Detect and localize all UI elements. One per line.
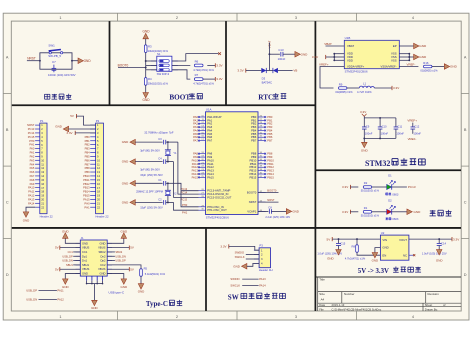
wire P1 pin22 to gnd [26, 207, 35, 212]
capacitor C12 [412, 123, 414, 127]
svg-text:VBAT: VBAT [324, 42, 332, 46]
svg-text:510Ω(510) ±1%: 510Ω(510) ±1% [361, 213, 380, 217]
svg-text:0Ω(0805) ±1%: 0Ω(0805) ±1% [420, 69, 438, 73]
wire diode center [266, 70, 273, 72]
svg-text:C10: C10 [382, 125, 387, 129]
svg-text:PB15: PB15 [83, 194, 90, 198]
svg-text:VSSA/VREF-: VSSA/VREF- [381, 65, 397, 69]
svg-text:PB3: PB3 [85, 147, 91, 151]
svg-text:100nF (104) 10% 50V: 100nF (104) 10% 50V [48, 73, 76, 77]
section divider horizontal row1 bottom [12, 104, 316, 106]
svg-text:3.3V: 3.3V [360, 110, 367, 114]
svg-text:U1B: U1B [345, 36, 351, 40]
svg-text:USB type-C: USB type-C [109, 290, 125, 294]
svg-text:EN: EN [382, 253, 386, 257]
wire R8 to EN [357, 252, 380, 255]
svg-text:Revision: Revision [428, 292, 440, 296]
wire LED out [392, 211, 407, 213]
power 5V typec right bottom [128, 267, 130, 271]
svg-text:SBU1: SBU1 [66, 263, 73, 267]
svg-text:PA14: PA14 [28, 201, 35, 205]
capacitor C14 [438, 239, 440, 243]
svg-text:PB0: PB0 [85, 135, 91, 139]
svg-text:VDDA-VREF+: VDDA-VREF+ [347, 65, 365, 69]
zone tick marks [117, 13, 119, 21]
section divider horizontal row2 bottom [12, 227, 461, 229]
wire J1 vbus row2 right [107, 247, 129, 249]
wire 5v rail [332, 238, 380, 240]
svg-text:NRST: NRST [267, 198, 275, 202]
svg-text:STM32F401CBU6: STM32F401CBU6 [206, 216, 229, 220]
capacitor C10 [379, 118, 381, 127]
svg-text:PB7: PB7 [85, 162, 91, 166]
wire S1 pin1 to NC [172, 54, 219, 61]
svg-text:Number: Number [344, 292, 354, 296]
svg-text:R1: R1 [364, 206, 368, 210]
svg-text:U2: U2 [381, 231, 385, 235]
svg-text:3.3V: 3.3V [453, 237, 460, 241]
svg-text:C3: C3 [158, 137, 162, 141]
wire J1 dp1 [73, 255, 80, 257]
svg-text:PB11: PB11 [83, 178, 90, 182]
ic U1A left pin stubs [199, 116, 206, 118]
svg-text:PB15: PB15 [267, 175, 274, 179]
wire J1 gnd top-right [107, 238, 124, 243]
resistor R8 [356, 245, 359, 253]
node reset loop left junction [39, 60, 41, 62]
wire cap out C1 [166, 182, 178, 184]
wire R to LED [372, 211, 387, 213]
svg-text:2.2uF (225) 10% 10V: 2.2uF (225) 10% 10V [265, 215, 290, 219]
ground GND r5 [138, 284, 144, 289]
svg-text:PA15: PA15 [192, 175, 199, 179]
svg-text:PA1: PA1 [30, 151, 35, 155]
ground GND ep [414, 43, 419, 49]
node boot junction upper [145, 60, 147, 62]
svg-text:4.7uH ±10%: 4.7uH ±10% [357, 90, 372, 94]
wire J1 dn2 [107, 255, 115, 257]
capacitor C1 [163, 181, 165, 186]
svg-text:NRST: NRST [249, 200, 257, 204]
svg-text:Size: Size [319, 292, 325, 296]
svg-text:PA12: PA12 [28, 194, 35, 198]
section title reset circuit [45, 94, 72, 100]
svg-text:PA8: PA8 [30, 178, 35, 182]
svg-text:C15: C15 [340, 241, 345, 245]
svg-text:USB_DN: USB_DN [115, 254, 126, 258]
svg-text:VCAP1: VCAP1 [247, 209, 257, 213]
wire J1 sbu2 [107, 251, 115, 253]
svg-text:PA13: PA13 [259, 277, 266, 281]
wire L1 to 3.3V [374, 87, 392, 89]
svg-text:SWCLK: SWCLK [230, 284, 240, 288]
wire EP to gnd [399, 45, 413, 47]
wire gnd to p3 pin4 [247, 263, 259, 266]
wire R9 to L1 [347, 87, 359, 89]
svg-text:CC1: CC1 [82, 250, 88, 254]
svg-text:3.3V: 3.3V [216, 64, 223, 68]
wire loop to GND [72, 60, 78, 62]
svg-text:PA13: PA13 [28, 197, 35, 201]
svg-text:R6: R6 [195, 59, 199, 63]
wire osc32 in [178, 142, 199, 194]
power 5V typec right top [128, 246, 130, 250]
ground GND typec bottom-right [121, 279, 127, 284]
svg-text:PA0: PA0 [30, 147, 35, 151]
wire gnd to cap C1 [135, 182, 162, 184]
power 3.3V vout [451, 237, 453, 241]
svg-text:15pF (150) 5% 50V: 15pF (150) 5% 50V [140, 173, 163, 177]
svg-text:SBU1: SBU1 [82, 263, 90, 267]
svg-text:PA7: PA7 [207, 139, 212, 143]
wire vdda path [320, 67, 344, 89]
wire vout rail [409, 238, 452, 240]
svg-text:SBU2: SBU2 [115, 250, 122, 254]
wire gnd to cap C2 [135, 201, 162, 203]
svg-text:GND: GND [55, 124, 62, 128]
wire gnd to p2 pin2 [69, 128, 96, 130]
ground GND reset [78, 58, 83, 64]
svg-text:3.3V: 3.3V [216, 77, 223, 81]
wire J1 dn1 [73, 260, 80, 262]
capacitor C4 [163, 159, 165, 164]
svg-text:GND: GND [122, 201, 129, 205]
svg-text:SW-PB_5: SW-PB_5 [48, 54, 61, 58]
svg-text:Dp2: Dp2 [101, 259, 106, 263]
svg-text:VBUS: VBUS [82, 267, 90, 271]
svg-text:PC15: PC15 [181, 198, 188, 202]
svg-text:C1: C1 [158, 178, 162, 182]
wire vss bus [408, 54, 410, 61]
svg-text:PB13: PB13 [83, 186, 90, 190]
svg-text:PA15: PA15 [207, 175, 214, 179]
svg-text:NC: NC [403, 253, 407, 257]
led color label [386, 218, 391, 220]
resistor R4 [144, 78, 147, 86]
svg-text:GND: GND [121, 230, 128, 234]
section divider vertical mid/right-column [314, 21, 316, 228]
svg-text:5V: 5V [130, 267, 134, 271]
svg-text:BOOT: BOOT [169, 94, 190, 102]
wire BOOT0 label [118, 67, 146, 69]
svg-text:SW1: SW1 [48, 43, 55, 47]
svg-text:File: File [319, 307, 324, 311]
svg-text:C11: C11 [397, 125, 402, 129]
svg-text:B: B [464, 128, 467, 132]
svg-text:PA5: PA5 [30, 166, 35, 170]
svg-text:GND: GND [292, 210, 299, 214]
svg-text:PB12: PB12 [267, 165, 274, 169]
svg-text:SWDIO: SWDIO [235, 251, 245, 255]
wire J1 vbus row7 left [60, 268, 81, 270]
capacitor C11 [395, 118, 397, 127]
wire J1 dp2 [107, 260, 115, 262]
svg-text:GND: GND [99, 241, 105, 245]
wire shield bus [87, 283, 103, 285]
svg-text:PC13: PC13 [181, 187, 188, 191]
svg-text:STM32F401CBU6: STM32F401CBU6 [345, 70, 368, 74]
wire J1 vbus row2 left [60, 247, 81, 249]
svg-text:Title: Title [319, 278, 325, 282]
svg-text:GND: GND [327, 256, 334, 260]
svg-text:S1: S1 [157, 52, 161, 56]
wire gnd to R3 [145, 39, 147, 45]
svg-text:PA6: PA6 [30, 170, 35, 174]
svg-text:GND: GND [99, 272, 105, 276]
svg-text:PB6: PB6 [85, 158, 91, 162]
wire BOOT0 right [258, 191, 279, 193]
svg-text:GND: GND [138, 290, 145, 294]
svg-text:EP: EP [393, 44, 397, 48]
wire R7 to 3.3V [203, 78, 215, 80]
svg-text:GND: GND [382, 246, 388, 250]
wire C13 to gnd [283, 53, 295, 55]
svg-text:PA9: PA9 [30, 182, 35, 186]
svg-text:SBU2: SBU2 [98, 250, 106, 254]
svg-text:PA4: PA4 [30, 162, 35, 166]
svg-text:R2: R2 [364, 181, 368, 185]
capacitor C9 [363, 118, 365, 127]
svg-text:D2: D2 [388, 198, 392, 202]
svg-text:0603: 0603 [392, 217, 399, 221]
power 5V typec left top [59, 246, 61, 250]
svg-text:R9: R9 [339, 82, 343, 86]
svg-text:VDD: VDD [347, 58, 353, 62]
svg-text:GND: GND [361, 149, 369, 153]
svg-text:BAT54C: BAT54C [262, 80, 272, 84]
svg-text:PB7: PB7 [251, 139, 257, 143]
svg-text:1: 1 [59, 16, 61, 20]
node 5v rail r8 [356, 238, 358, 240]
svg-text:PB9: PB9 [85, 170, 91, 174]
wire 3.3v to p2 pin3 [75, 132, 95, 134]
svg-text:PA2: PA2 [30, 154, 35, 158]
svg-text:NRST: NRST [27, 123, 35, 127]
svg-text:USB_DP: USB_DP [26, 289, 37, 293]
svg-text:VBUS: VBUS [98, 246, 106, 250]
wire R3 to R4 vertical [145, 53, 147, 78]
wire R16 to gnd [432, 66, 444, 68]
svg-text:PH1: PH1 [29, 143, 35, 147]
wire D3 to VB [278, 70, 293, 72]
svg-text:VREF-: VREF- [408, 137, 417, 141]
svg-text:3.3V: 3.3V [393, 86, 400, 90]
svg-text:PH1-OSC_OUT: PH1-OSC_OUT [207, 208, 227, 212]
svg-text:R3: R3 [148, 45, 152, 49]
wire 3.3v to p3 pin1 [229, 246, 259, 250]
svg-text:PB14: PB14 [83, 190, 90, 194]
svg-text:R7: R7 [195, 73, 199, 77]
no-connect NC u2 [409, 254, 413, 256]
svg-text:A: A [6, 56, 9, 60]
capacitor C8 [268, 209, 270, 214]
wire cap top rail [363, 116, 365, 118]
svg-text:C:\D-Mine\F401CB-MineF401CB.Sc: C:\D-Mine\F401CB-MineF401CB.SchDoc [332, 307, 382, 311]
svg-text:PA11: PA11 [28, 190, 35, 194]
wire swclk [246, 258, 259, 260]
wire vbat pin [326, 45, 345, 47]
svg-text:PB10: PB10 [83, 174, 90, 178]
svg-text:3.3V: 3.3V [342, 210, 349, 214]
svg-text:PB12: PB12 [83, 182, 90, 186]
power 3.3V R6 [214, 63, 216, 67]
wire J1 cc2 to R5 [107, 265, 141, 269]
svg-text:Dn2: Dn2 [101, 254, 106, 258]
svg-text:PA12: PA12 [57, 298, 64, 302]
wire R5 to gnd [140, 276, 142, 283]
wire NRST to loop [27, 60, 40, 62]
wire VCAP1 [258, 210, 268, 212]
ground GND c8 [286, 209, 291, 215]
svg-text:Type-C: Type-C [146, 300, 168, 308]
svg-text:C14: C14 [441, 241, 446, 245]
ground GND shield [92, 300, 98, 305]
svg-text:R16: R16 [423, 61, 429, 65]
ic U1A right pin stubs [258, 116, 266, 118]
svg-text:3.3V: 3.3V [237, 69, 244, 73]
svg-text:GND: GND [301, 52, 309, 56]
svg-text:GND: GND [233, 264, 240, 268]
wire J1 gnd bottom-right [107, 274, 124, 279]
wire 3.3V to D3 [246, 70, 261, 72]
svg-text:SWDIO: SWDIO [230, 277, 239, 281]
capacitor C15 [338, 239, 340, 243]
resistor R2 [363, 186, 371, 189]
svg-text:PB4: PB4 [85, 151, 91, 155]
section divider vertical typec/sw [205, 228, 207, 311]
svg-text:of: of [443, 303, 446, 307]
wire J1 vbus row7 right [107, 268, 129, 270]
ground GND c14 [436, 250, 442, 255]
wire 3.3v to R [350, 211, 358, 213]
svg-text:3pF (80) 5% 50V: 3pF (80) 5% 50V [140, 148, 160, 152]
svg-text:100nF: 100nF [396, 131, 404, 135]
svg-text:VSS: VSS [391, 58, 397, 62]
svg-text:3pF (80) 5% 50V: 3pF (80) 5% 50V [140, 167, 160, 171]
capacitor C2 [163, 200, 165, 205]
svg-text:4.7kΩ(4701) ±1%: 4.7kΩ(4701) ±1% [193, 82, 214, 86]
inductor L1 [359, 86, 374, 88]
wire rail to gnd [363, 138, 365, 142]
wire NRST right [258, 201, 279, 203]
switch SW1 [49, 50, 61, 51]
svg-text:100nF: 100nF [381, 131, 389, 135]
svg-text:1.0uF (105) 10% 25V: 1.0uF (105) 10% 25V [422, 251, 447, 255]
svg-text:BOOT0: BOOT0 [247, 190, 257, 194]
svg-text:PA14: PA14 [259, 284, 266, 288]
svg-text:3: 3 [295, 315, 297, 319]
wire osc in [178, 183, 199, 207]
node reset loop right junction [71, 60, 73, 62]
svg-text:GND: GND [122, 140, 129, 144]
power 3.3V R7 [214, 77, 216, 81]
svg-text:C12: C12 [414, 125, 419, 129]
svg-text:0603: 0603 [392, 192, 399, 196]
svg-text:VREF+: VREF+ [407, 119, 417, 123]
svg-text:PA15: PA15 [83, 197, 90, 201]
svg-text:PC15: PC15 [28, 135, 35, 139]
svg-text:C2: C2 [158, 197, 162, 201]
svg-text:Drawn By:: Drawn By: [425, 307, 438, 311]
svg-text:3.3V: 3.3V [66, 131, 72, 135]
svg-text:GND: GND [419, 44, 427, 48]
svg-text:PA12: PA12 [192, 165, 199, 169]
ground GND rtc [295, 51, 300, 57]
svg-text:U1A: U1A [206, 108, 212, 112]
wire shield to gnd [93, 284, 95, 301]
svg-text:C: C [6, 201, 9, 205]
svg-text:PB7: PB7 [267, 139, 273, 143]
svg-text:GND: GND [436, 258, 443, 262]
ground GND typec bottom-left [63, 279, 69, 284]
resistor R5 [140, 269, 143, 277]
svg-text:PC13: PC13 [28, 127, 35, 131]
svg-text:4.7kΩ(4701) ±1%: 4.7kΩ(4701) ±1% [345, 256, 366, 260]
svg-text:Y1: Y1 [173, 151, 177, 155]
node boot junction boot0 [145, 67, 147, 69]
svg-text:NRST: NRST [27, 57, 36, 61]
svg-text:C13: C13 [278, 48, 284, 52]
led D1 [387, 184, 392, 189]
svg-text:Dp1: Dp1 [82, 254, 87, 258]
ground GND u2 [372, 253, 378, 258]
ground GND boot bottom [143, 93, 149, 98]
svg-text:510Ω(510) ±1%: 510Ω(510) ±1% [361, 189, 380, 193]
wire gnd to cap C3 [135, 141, 162, 143]
svg-text:GND: GND [450, 65, 458, 69]
svg-text:D: D [6, 273, 9, 277]
wire 3.3v to R [350, 186, 358, 188]
wire U2 gnd pin [375, 248, 381, 253]
wire S1 pin2 to R6 [172, 64, 190, 66]
svg-text:P2: P2 [96, 119, 100, 123]
wire to C13 [269, 53, 280, 55]
wire S1 left pins to bus [146, 60, 157, 62]
wire reset loop rectangle [40, 53, 72, 69]
ground GND c15 [336, 250, 342, 255]
svg-text:1: 1 [59, 315, 61, 319]
svg-text:PA3: PA3 [30, 158, 35, 162]
led color label [386, 193, 392, 195]
svg-text:BOOT0: BOOT0 [118, 64, 129, 68]
svg-text:SWCLK: SWCLK [235, 255, 245, 259]
svg-text:5.1kΩ(5101) ±1%: 5.1kΩ(5101) ±1% [145, 272, 166, 276]
svg-text:B: B [6, 128, 9, 132]
svg-text:Header 22: Header 22 [40, 215, 54, 219]
svg-text:VOUT: VOUT [399, 238, 407, 242]
svg-text:3.3V: 3.3V [312, 55, 319, 59]
section divider vertical reset/boot [109, 21, 111, 105]
svg-text:VREF+: VREF+ [319, 62, 329, 66]
svg-text:P3: P3 [259, 244, 263, 248]
svg-text:PC14: PC14 [28, 131, 35, 135]
no-connect marker NC [218, 52, 221, 55]
wire J1 cc1 [73, 251, 80, 253]
wire pc13 stub [182, 190, 199, 192]
diode D3 left [261, 68, 266, 73]
svg-text:RTC: RTC [258, 94, 273, 102]
svg-text:USB_DN: USB_DN [26, 298, 37, 302]
svg-text:PB15: PB15 [250, 175, 257, 179]
svg-text:GND: GND [121, 285, 128, 289]
title block frame [317, 277, 319, 311]
svg-text:5V: 5V [130, 246, 134, 250]
svg-text:VIN: VIN [382, 238, 387, 242]
power 5V typec left bottom [59, 267, 61, 271]
svg-text:C9: C9 [366, 125, 370, 129]
svg-text:A4: A4 [321, 297, 325, 301]
svg-text:5V: 5V [70, 114, 74, 118]
